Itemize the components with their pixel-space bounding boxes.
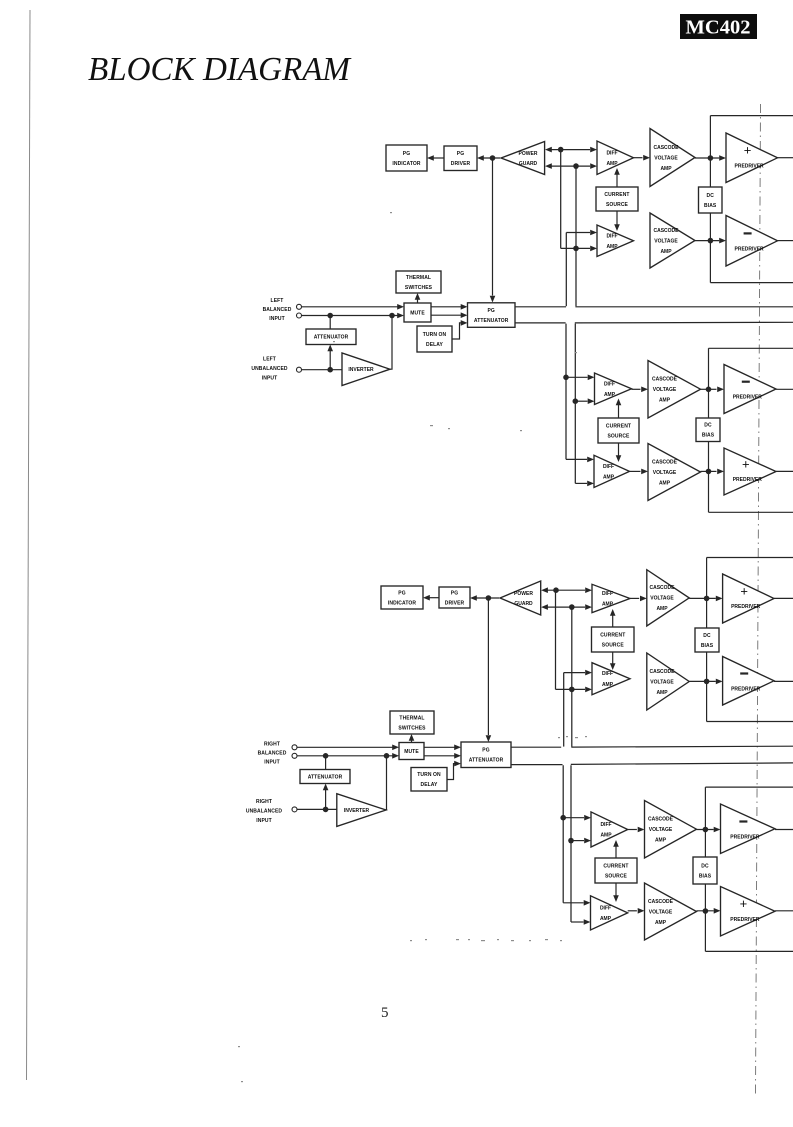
svg-text:PREDRIVER: PREDRIVER: [731, 604, 761, 610]
op-amp CASCODE VOLTAGE AMP L1: [650, 129, 695, 187]
node cascode R2 output junction: [704, 679, 710, 685]
op-amp DIFF AMP R3: [591, 812, 628, 847]
svg-text:AMP: AMP: [602, 682, 614, 688]
op-amp CASCODE VOLTAGE AMP R1: [647, 570, 689, 626]
op-amp DIFF AMP L2: [597, 225, 634, 257]
wire into DIFF AMP R3 input1: [563, 817, 584, 819]
box ATTENUATOR L: [306, 329, 356, 345]
bracket output stage R upper top rail: [707, 557, 793, 559]
svg-text:AMP: AMP: [660, 166, 672, 172]
svg-text:DIFF: DIFF: [604, 381, 615, 387]
op-amp DIFF AMP L1: [597, 141, 634, 175]
bracket output stage L lower vertical: [708, 348, 710, 512]
wire MUTE to PG ATTENUATOR line1 L: [431, 306, 461, 308]
node net junction on DIFF R2 input: [569, 687, 575, 693]
box DC BIAS L lower: [696, 418, 720, 442]
svg-text:POWER: POWER: [519, 151, 538, 157]
wire MUTE to PG ATTENUATOR line2 R: [424, 755, 455, 757]
wire bus line 1 L: [515, 306, 566, 308]
node cascode L4 output junction: [706, 469, 712, 475]
wire CURRENT SOURCE L2 up to DIFF AMP L3: [618, 405, 620, 418]
wire into DIFF AMP L4 input2: [575, 482, 587, 484]
wire DIFF AMP L1 to CASCODE L1: [634, 157, 643, 159]
wire + PREDRIVER R lower output: [775, 910, 793, 912]
svg-text:ATTENUATOR: ATTENUATOR: [474, 318, 509, 324]
svg-text:THERMAL: THERMAL: [406, 275, 431, 281]
svg-text:VOLTAGE: VOLTAGE: [650, 679, 674, 685]
wire net1 into POWER GUARD and DIFF AMP R1: [547, 589, 585, 591]
wire - PREDRIVER R output: [774, 680, 793, 682]
wire - PREDRIVER L output: [778, 240, 793, 242]
svg-text:PG: PG: [451, 590, 458, 596]
wire - PREDRIVER L lower output: [776, 388, 793, 390]
wire into DIFF AMP L3 input2: [575, 400, 587, 402]
box CURRENT SOURCE L2: [598, 418, 639, 443]
box PG ATTENUATOR L: [468, 303, 516, 328]
wire CURRENT SOURCE R1 up to DIFF AMP R1: [612, 616, 614, 628]
svg-text:TURN ON: TURN ON: [417, 772, 441, 778]
svg-text:RIGHT: RIGHT: [256, 799, 272, 805]
svg-text:PREDRIVER: PREDRIVER: [733, 477, 763, 483]
svg-text:PREDRIVER: PREDRIVER: [733, 395, 763, 401]
node inverter tap R: [384, 753, 390, 759]
svg-text:DIFF: DIFF: [600, 905, 611, 911]
box PG INDICATOR L: [386, 145, 427, 171]
op-amp CASCODE VOLTAGE AMP R4: [645, 883, 697, 940]
svg-text:CASCODE: CASCODE: [652, 377, 678, 383]
wire INVERTER output up to balanced line 2 R: [385, 756, 387, 810]
wire CASCODE R1 to + PREDRIVER R: [689, 597, 716, 599]
wire balanced line to ATTENUATOR R: [325, 756, 327, 770]
svg-text:BIAS: BIAS: [702, 433, 715, 439]
svg-text:TURN ON: TURN ON: [423, 332, 447, 338]
wire MUTE to THERMAL SWITCHES R: [411, 740, 413, 743]
svg-text:CASCODE: CASCODE: [649, 585, 675, 591]
box PG DRIVER R: [439, 587, 470, 608]
wire CASCODE L1 to + PREDRIVER L: [695, 157, 719, 159]
box TURN ON DELAY R: [411, 768, 447, 792]
wire vertical V3 feedback R: [563, 673, 565, 747]
box THERMAL SWITCHES R: [390, 711, 434, 734]
wire CASCODE R4 to + PREDRIVER R lower: [697, 910, 714, 912]
wire CASCODE L4 to + PREDRIVER L lower: [701, 470, 717, 472]
wire - PREDRIVER R lower output: [775, 829, 793, 831]
svg-text:MUTE: MUTE: [404, 749, 419, 755]
dash-dot fold line right side: [756, 104, 761, 1095]
node cascode L3 output junction: [706, 387, 712, 393]
box DC BIAS R upper: [695, 628, 719, 652]
svg-text:DRIVER: DRIVER: [451, 161, 471, 167]
node net1 junction R: [553, 587, 559, 593]
svg-text:INDICATOR: INDICATOR: [392, 161, 421, 167]
node cascode L2 output junction: [708, 238, 714, 244]
op-amp DIFF AMP R2: [592, 663, 630, 695]
terminal balanced input 2 L: [297, 313, 302, 318]
svg-text:POWER: POWER: [514, 591, 533, 597]
page left border line: [27, 10, 31, 1080]
wire DIFF AMP L3 to CASCODE L3: [632, 388, 641, 390]
wire MUTE to THERMAL SWITCHES L: [417, 299, 419, 303]
wire TURN ON DELAY to PG ATTENUATOR R: [447, 764, 455, 780]
wire into DIFF AMP L4 input1: [566, 458, 587, 460]
bracket output stage L lower top rail: [709, 347, 793, 349]
svg-text:+: +: [740, 583, 748, 598]
svg-text:ATTENUATOR: ATTENUATOR: [308, 774, 343, 780]
box THERMAL SWITCHES L: [396, 271, 441, 293]
svg-text:CURRENT: CURRENT: [606, 423, 631, 429]
wire net1 into POWER GUARD and DIFF AMP L1: [551, 149, 590, 151]
svg-text:INPUT: INPUT: [262, 376, 278, 382]
svg-text:DIFF: DIFF: [606, 150, 617, 156]
svg-text:INPUT: INPUT: [264, 760, 280, 766]
bracket output stage R lower vertical: [704, 787, 706, 951]
svg-text:DC: DC: [701, 863, 709, 869]
wire vertical V1 net1 L: [560, 150, 562, 249]
svg-text:MUTE: MUTE: [410, 310, 425, 316]
node cascode R1 output junction: [704, 596, 710, 602]
svg-text:AMP: AMP: [659, 398, 671, 404]
wire DIFF AMP L4 to CASCODE L4: [630, 470, 641, 472]
box ATTENUATOR R: [300, 770, 350, 784]
wire CASCODE R3 to - PREDRIVER R lower: [697, 829, 714, 831]
wire vertical V4 net2 R: [571, 607, 573, 747]
wire + PREDRIVER L output: [778, 157, 793, 159]
svg-text:GUARD: GUARD: [519, 161, 538, 167]
op-amp + PREDRIVER R upper: [723, 574, 774, 623]
wire DIFF AMP R4 to CASCODE R4: [628, 910, 637, 912]
box PG INDICATOR R: [381, 586, 423, 609]
node cascode R3 output junction: [703, 827, 709, 833]
MC402 model badge: [680, 14, 757, 39]
box PG DRIVER L: [444, 146, 477, 171]
wire into DIFF AMP L3 input1: [566, 376, 588, 378]
svg-text:PREDRIVER: PREDRIVER: [730, 834, 760, 840]
box DC BIAS R lower: [693, 857, 717, 884]
op-amp DIFF AMP R4: [591, 896, 628, 930]
box CURRENT SOURCE L1: [596, 187, 638, 211]
svg-text:AMP: AMP: [659, 480, 671, 486]
wire bus line 2 L: [515, 322, 566, 324]
svg-text:INPUT: INPUT: [256, 818, 272, 824]
node V3 junction DIFF R3: [560, 815, 566, 821]
svg-text:CASCODE: CASCODE: [648, 899, 674, 905]
wire bus line 2 R: [511, 764, 563, 766]
op-amp CASCODE VOLTAGE AMP R3: [645, 801, 697, 859]
wire into DIFF AMP R3 input2: [571, 840, 584, 842]
op-amp - PREDRIVER L lower: [724, 365, 776, 414]
svg-text:+: +: [740, 896, 748, 911]
svg-text:SWITCHES: SWITCHES: [405, 285, 433, 291]
svg-text:DIFF: DIFF: [606, 233, 617, 239]
svg-text:PREDRIVER: PREDRIVER: [730, 917, 760, 923]
wire vertical V4 net2 L: [575, 166, 577, 306]
bracket output stage L upper top rail: [710, 115, 793, 117]
svg-text:AMP: AMP: [602, 602, 614, 608]
svg-text:CASCODE: CASCODE: [653, 145, 679, 151]
wire PG DRIVER to PG INDICATOR R: [429, 597, 439, 599]
wire CURRENT SOURCE L1 down to DIFF AMP L2: [616, 211, 618, 225]
op-amp CASCODE VOLTAGE AMP L4: [648, 444, 701, 501]
terminal unbalanced input L: [297, 367, 302, 372]
box TURN ON DELAY L: [417, 326, 452, 352]
bracket output stage L upper bottom rail: [710, 282, 793, 284]
node attenuator tap L: [327, 313, 333, 319]
svg-text:DIFF: DIFF: [603, 464, 614, 470]
svg-text:BLOCK DIAGRAM: BLOCK DIAGRAM: [88, 51, 352, 88]
node V4 junction DIFF R3: [568, 838, 574, 844]
wire CURRENT SOURCE R2 up to DIFF AMP R3: [615, 847, 617, 859]
wire feedback into DIFF AMP L2 top input: [566, 232, 590, 234]
svg-text:ATTENUATOR: ATTENUATOR: [469, 758, 504, 764]
wire into DIFF AMP R4 input2: [571, 921, 584, 923]
svg-text:BALANCED: BALANCED: [263, 307, 292, 313]
svg-text:VOLTAGE: VOLTAGE: [649, 909, 673, 915]
wire junction down to PG ATTENUATOR L: [492, 158, 494, 296]
svg-text:PREDRIVER: PREDRIVER: [731, 686, 761, 692]
wire junction down to PG ATTENUATOR R: [487, 598, 489, 735]
wire + PREDRIVER R output: [774, 597, 793, 599]
svg-text:AMP: AMP: [600, 833, 612, 839]
wire INVERTER output up to balanced line 2 L: [390, 316, 392, 370]
wire MUTE to PG ATTENUATOR line2 L: [431, 314, 461, 316]
svg-text:SOURCE: SOURCE: [606, 202, 629, 208]
op-amp POWER GUARD L: [501, 142, 545, 175]
wire vertical V1 net1 R: [555, 590, 557, 689]
svg-text:SOURCE: SOURCE: [605, 873, 628, 879]
svg-text:SOURCE: SOURCE: [602, 642, 625, 648]
svg-text:CURRENT: CURRENT: [600, 632, 625, 638]
box DC BIAS L upper: [699, 187, 723, 213]
wire net2 into POWER GUARD and DIFF AMP R1: [547, 606, 585, 608]
wire balanced input 1 to MUTE R: [297, 746, 393, 748]
svg-text:PG: PG: [487, 308, 494, 314]
wire CURRENT SOURCE L2 down to DIFF AMP L4: [618, 443, 620, 456]
svg-text:GUARD: GUARD: [514, 601, 533, 607]
svg-text:CASCODE: CASCODE: [652, 459, 678, 465]
wire unbalanced to ATTENUATOR L with arrow: [329, 351, 331, 370]
wire CURRENT SOURCE L1 up to DIFF AMP L1: [616, 175, 618, 188]
svg-text:CASCODE: CASCODE: [653, 228, 679, 234]
bracket output stage L upper vertical: [709, 116, 711, 283]
wire balanced input 2 to MUTE L: [302, 315, 398, 317]
wire feedback into DIFF AMP R2 top input: [564, 672, 585, 674]
wire net2 into POWER GUARD and DIFF AMP L1: [551, 165, 590, 167]
svg-text:PREDRIVER: PREDRIVER: [735, 246, 765, 252]
svg-text:CURRENT: CURRENT: [604, 192, 629, 198]
svg-text:LEFT: LEFT: [263, 356, 276, 362]
wire balanced input 2 to MUTE R: [297, 755, 393, 757]
box MUTE L: [404, 303, 431, 322]
node net1 junction L: [558, 147, 564, 153]
box CURRENT SOURCE R1: [592, 627, 635, 652]
wire bus line 1 R: [511, 746, 561, 748]
node net2 junction L: [573, 163, 579, 169]
svg-text:AMP: AMP: [606, 161, 618, 167]
op-amp - PREDRIVER R lower: [721, 804, 776, 854]
svg-text:AMP: AMP: [600, 916, 612, 922]
wire unbalanced to ATTENUATOR R with arrow: [325, 790, 327, 809]
wire balanced line to ATTENUATOR L: [329, 316, 331, 330]
svg-text:BIAS: BIAS: [701, 643, 714, 649]
svg-text:DELAY: DELAY: [426, 342, 444, 348]
wire unbalanced input to INVERTER L: [302, 369, 342, 371]
scan speckle noise: [456, 939, 459, 940]
node V4 junction DIFF L3: [573, 398, 579, 404]
svg-text:AMP: AMP: [604, 392, 616, 398]
op-amp DIFF AMP L3: [595, 373, 632, 405]
bracket output stage R lower bottom rail: [705, 950, 793, 952]
wire into DIFF AMP R4 input1: [563, 902, 583, 904]
op-amp INVERTER R: [337, 794, 386, 827]
wire CASCODE R2 to - PREDRIVER R: [689, 680, 716, 682]
svg-text:VOLTAGE: VOLTAGE: [653, 470, 677, 476]
wire DIFF AMP R1 to CASCODE R1: [630, 597, 639, 599]
svg-text:PG: PG: [482, 748, 489, 754]
op-amp INVERTER L: [342, 353, 390, 386]
svg-text:AMP: AMP: [603, 474, 615, 480]
svg-text:AMP: AMP: [655, 838, 667, 844]
op-amp POWER GUARD R: [500, 581, 541, 615]
svg-text:VOLTAGE: VOLTAGE: [650, 596, 674, 602]
op-amp CASCODE VOLTAGE AMP R2: [647, 653, 689, 710]
node power guard junction L: [490, 155, 496, 161]
wire DIFF AMP R3 to CASCODE R3: [628, 829, 637, 831]
svg-text:BALANCED: BALANCED: [258, 751, 287, 757]
op-amp + PREDRIVER L lower: [724, 448, 776, 495]
box PG ATTENUATOR R: [461, 742, 511, 768]
svg-text:DRIVER: DRIVER: [445, 600, 465, 606]
node cascode L1 output junction: [708, 155, 714, 161]
node net junction on DIFF L2 input: [573, 246, 579, 252]
bracket output stage R upper bottom rail: [707, 721, 793, 723]
node V3 junction DIFF L3: [563, 375, 569, 381]
svg-text:AMP: AMP: [606, 244, 618, 250]
svg-text:AMP: AMP: [656, 690, 668, 696]
terminal balanced input 1 L: [297, 304, 302, 309]
svg-text:ATTENUATOR: ATTENUATOR: [314, 335, 349, 341]
bracket output stage R lower top rail: [705, 786, 793, 788]
svg-text:PG: PG: [403, 151, 410, 157]
svg-text:AMP: AMP: [655, 920, 667, 926]
wire net1 into DIFF AMP L2 bottom input: [561, 247, 590, 249]
node unbalanced junction L: [327, 367, 333, 373]
terminal balanced input 2 R: [292, 753, 297, 758]
svg-text:VOLTAGE: VOLTAGE: [653, 387, 677, 393]
svg-text:VOLTAGE: VOLTAGE: [654, 238, 678, 244]
svg-text:MC402: MC402: [686, 17, 751, 39]
svg-text:DC: DC: [704, 423, 712, 429]
svg-text:+: +: [744, 143, 752, 158]
wire CASCODE L3 to - PREDRIVER L lower: [701, 388, 717, 390]
svg-text:CASCODE: CASCODE: [649, 669, 675, 675]
node power guard junction R: [486, 595, 492, 601]
wire POWER GUARD to PG DRIVER L: [483, 157, 500, 159]
svg-text:INVERTER: INVERTER: [344, 808, 370, 814]
svg-text:PG: PG: [457, 151, 464, 157]
svg-text:PREDRIVER: PREDRIVER: [735, 163, 765, 169]
node inverter tap L: [389, 313, 395, 319]
svg-text:AMP: AMP: [656, 606, 668, 612]
node attenuator tap R: [323, 753, 329, 759]
wire POWER GUARD to PG DRIVER R: [476, 597, 499, 599]
op-amp DIFF AMP L4: [594, 455, 630, 487]
svg-text:BIAS: BIAS: [699, 873, 712, 879]
box MUTE R: [399, 743, 424, 760]
bracket output stage L lower bottom rail: [709, 511, 793, 513]
svg-text:VOLTAGE: VOLTAGE: [649, 827, 673, 833]
op-amp CASCODE VOLTAGE AMP L3: [648, 361, 701, 419]
svg-text:SOURCE: SOURCE: [608, 433, 631, 439]
bracket output stage R upper vertical: [706, 558, 708, 722]
svg-text:INPUT: INPUT: [269, 316, 285, 322]
op-amp - PREDRIVER R upper: [723, 657, 774, 706]
svg-text:VOLTAGE: VOLTAGE: [654, 155, 678, 161]
op-amp + PREDRIVER L upper: [726, 133, 778, 183]
wire TURN ON DELAY to PG ATTENUATOR L: [452, 323, 461, 339]
wire CURRENT SOURCE R1 down to DIFF AMP R2: [612, 652, 614, 664]
op-amp + PREDRIVER R lower: [721, 887, 776, 937]
svg-text:DIFF: DIFF: [600, 822, 611, 828]
svg-text:DIFF: DIFF: [602, 591, 613, 597]
wire vertical V3 feedback L: [565, 233, 567, 307]
svg-text:5: 5: [381, 1005, 389, 1021]
box CURRENT SOURCE R2: [595, 858, 637, 883]
svg-text:INDICATOR: INDICATOR: [388, 600, 417, 606]
wire CURRENT SOURCE R2 down to DIFF AMP R4: [615, 883, 617, 896]
svg-text:SWITCHES: SWITCHES: [398, 725, 426, 731]
op-amp DIFF AMP R1: [592, 584, 630, 612]
wire PG DRIVER to PG INDICATOR L: [433, 157, 444, 159]
op-amp CASCODE VOLTAGE AMP L2: [650, 213, 695, 268]
svg-text:+: +: [742, 456, 750, 471]
svg-text:CURRENT: CURRENT: [603, 863, 628, 869]
wire CASCODE L2 to - PREDRIVER L: [695, 240, 719, 242]
svg-text:UNBALANCED: UNBALANCED: [246, 809, 283, 815]
wire + PREDRIVER L lower output: [776, 470, 793, 472]
node net2 junction R: [569, 604, 575, 610]
svg-text:DELAY: DELAY: [421, 782, 439, 788]
svg-text:UNBALANCED: UNBALANCED: [251, 366, 288, 372]
wire net1 into DIFF AMP R2 bottom input: [556, 688, 586, 690]
op-amp - PREDRIVER L upper: [726, 216, 778, 267]
svg-text:LEFT: LEFT: [271, 298, 284, 304]
terminal unbalanced input R: [292, 807, 297, 812]
svg-text:DC: DC: [706, 193, 714, 199]
wire balanced input 1 to MUTE L: [302, 306, 398, 308]
node cascode R4 output junction: [703, 908, 709, 914]
svg-text:THERMAL: THERMAL: [399, 715, 424, 721]
node unbalanced junction R: [323, 807, 329, 813]
terminal balanced input 1 R: [292, 745, 297, 750]
svg-text:RIGHT: RIGHT: [264, 742, 280, 748]
svg-text:BIAS: BIAS: [704, 203, 717, 209]
wire unbalanced input to INVERTER R: [297, 808, 337, 810]
wire MUTE to PG ATTENUATOR line1 R: [424, 746, 455, 748]
svg-text:DIFF: DIFF: [602, 671, 613, 677]
svg-text:CASCODE: CASCODE: [648, 817, 674, 823]
svg-text:PG: PG: [398, 590, 405, 596]
svg-text:DC: DC: [703, 633, 711, 639]
svg-text:INVERTER: INVERTER: [348, 367, 374, 373]
svg-text:AMP: AMP: [660, 249, 672, 255]
